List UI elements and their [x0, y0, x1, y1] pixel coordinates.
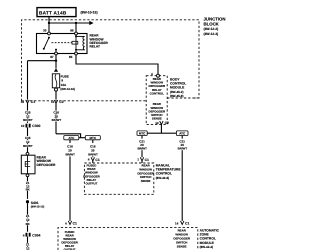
svg-text:BR/WT: BR/WT — [178, 147, 188, 151]
fuse element curve — [55, 74, 57, 87]
svg-text:(8W-15-12): (8W-15-12) — [31, 206, 45, 209]
option tag MTC sense branch — [137, 131, 147, 136]
option tag MTC right branch — [85, 136, 100, 140]
svg-text:(8W-10-15): (8W-10-15) — [81, 11, 98, 15]
wire through C2 down — [55, 103, 57, 133]
svg-text:4: 4 — [65, 221, 67, 225]
relay coil branch node top — [75, 35, 77, 37]
wire C300 to defogger — [27, 128, 29, 153]
MTC dashed box — [84, 163, 153, 194]
wire to relay pin 86 — [75, 23, 77, 32]
svg-text:9: 9 — [61, 79, 63, 83]
wire relay pin 85 to BCM — [76, 55, 158, 74]
svg-text:ATC: ATC — [68, 136, 75, 140]
wire MTC branch to C1 — [92, 155, 94, 158]
wire to relay pin 30 — [48, 23, 50, 32]
svg-text:MTC: MTC — [90, 136, 97, 140]
svg-text:BATT A14B: BATT A14B — [39, 11, 67, 16]
svg-text:14: 14 — [155, 121, 159, 125]
label wire C21 20 BR/WT to MTC sense — [137, 140, 147, 151]
relay coil parallel conductor — [75, 35, 77, 52]
relay switch blade (open) — [44, 38, 49, 49]
connector C2 symbol at junction block — [54, 100, 57, 104]
svg-text:14: 14 — [175, 221, 179, 225]
arrow continuation of B+ feed — [89, 21, 93, 25]
wire ATC branch stub — [69, 140, 71, 143]
wire MTC branch stub — [92, 140, 94, 143]
svg-text:(8W-42-4): (8W-42-4) — [200, 245, 213, 249]
svg-text:CONTROL: CONTROL — [150, 91, 165, 95]
pin 87 terminal — [55, 52, 58, 55]
svg-text:4: 4 — [151, 72, 153, 76]
relay actuator end block — [72, 41, 78, 44]
svg-text:BK/WT: BK/WT — [23, 118, 33, 122]
label wire C15 12 BK/WT upper — [23, 110, 33, 122]
label MTC fused relay output input — [83, 164, 100, 186]
svg-text:1: 1 — [137, 158, 139, 162]
svg-text:BK/WT: BK/WT — [52, 118, 62, 122]
relay K1 rear window defogger relay box — [37, 34, 88, 54]
fuse output terminal circle — [55, 88, 58, 91]
option tag ATC left branch — [64, 136, 79, 140]
junction block dashed outline — [22, 20, 200, 101]
svg-text:(8W-12-3): (8W-12-3) — [204, 32, 219, 36]
svg-text:86: 86 — [70, 29, 74, 33]
svg-text:BR/WT: BR/WT — [88, 152, 98, 156]
connector C1 at AZC right — [181, 221, 184, 225]
wire sense split horizontal right — [161, 132, 176, 134]
svg-text:(8W-12-2): (8W-12-2) — [204, 27, 219, 31]
svg-text:85: 85 — [69, 55, 73, 59]
label wire Z1 12 BK upper — [26, 181, 31, 192]
label BCM switch sense output — [149, 102, 166, 120]
wire B+ distribution horizontal — [49, 22, 90, 24]
svg-text:30: 30 — [43, 29, 47, 33]
option tag ATC sense branch — [176, 131, 188, 136]
wire C304 down to ground — [27, 237, 29, 250]
label BATT A14B box — [37, 8, 76, 17]
svg-text:4: 4 — [23, 233, 25, 237]
svg-text:BLOCK: BLOCK — [204, 21, 220, 26]
rear window defogger grid terminal bottom — [26, 174, 29, 177]
wire defogger ground lead — [27, 177, 29, 199]
fuse F9 cavity box — [52, 74, 59, 88]
rear window defogger element box — [21, 155, 35, 174]
svg-text:BK/WT: BK/WT — [23, 144, 33, 148]
label wire C21 20 BR/WT to AZC sense — [178, 140, 188, 151]
label wire Z1 12 bottom — [26, 243, 30, 250]
stub fixed contact to pin87 — [55, 50, 57, 53]
svg-text:16: 16 — [21, 100, 25, 104]
relay coil branch node bottom — [75, 49, 77, 51]
svg-text:C1: C1 — [73, 221, 77, 225]
connector C1 symbol at junction block — [26, 100, 29, 104]
BCM terminal circle — [157, 74, 160, 77]
AZC dashed box — [58, 228, 198, 250]
relay coil winding — [83, 36, 85, 50]
svg-text:C300: C300 — [32, 124, 40, 128]
fuse feed arrow — [54, 68, 58, 72]
svg-text:MTC: MTC — [139, 131, 146, 135]
wire fused output split corner — [56, 134, 81, 138]
wire pin87 output to left branch — [28, 60, 57, 62]
label wire Z1 12 BK middle — [26, 214, 31, 226]
wire ATC sense down to AZC — [181, 150, 183, 221]
inline connector C300 halves — [26, 124, 31, 128]
label MTC switch sense input — [137, 164, 154, 184]
connector C1 at MTC left — [91, 157, 94, 161]
splice S401 — [26, 200, 29, 203]
relay actuator dashed link — [52, 42, 72, 44]
wire relay pin 87 output down — [55, 55, 57, 61]
svg-text:OUTPUT: OUTPUT — [85, 182, 97, 186]
svg-text:C1: C1 — [145, 158, 149, 162]
relay coil top lead — [76, 35, 85, 37]
wire S401 down — [27, 203, 29, 232]
svg-text:ATC: ATC — [179, 131, 186, 135]
defogger element conductor — [27, 155, 29, 174]
svg-text:FUSE: FUSE — [61, 74, 69, 78]
svg-text:C2: C2 — [59, 100, 63, 104]
relay switch pivot — [48, 37, 50, 39]
pin 85 terminal — [75, 52, 78, 55]
svg-text:SENSE: SENSE — [141, 179, 151, 183]
BCM dashed box — [146, 76, 167, 125]
svg-text:C2: C2 — [165, 121, 169, 125]
svg-text:4: 4 — [88, 158, 90, 162]
wire fuse output down to C2 — [55, 91, 57, 100]
svg-text:(8W-42-8): (8W-42-8) — [156, 176, 169, 180]
wire ATC sense stub — [181, 136, 183, 139]
svg-text:RELAY: RELAY — [90, 45, 101, 49]
label wire C16 20 BR/WT to AZC — [65, 145, 75, 157]
label BCM relay control input — [149, 77, 166, 95]
wire through C1 — [27, 103, 29, 123]
svg-text:(8W-45-8): (8W-45-8) — [170, 94, 183, 98]
wire between option tags — [79, 137, 85, 139]
rear window defogger grid terminal top — [26, 152, 29, 155]
relay coil bottom lead — [76, 49, 85, 51]
label wire C16 20 BR/WT to MTC — [88, 145, 98, 157]
label wire C15 12 BK/WT lower — [23, 136, 33, 148]
pin 30 terminal — [48, 32, 51, 35]
svg-text:BR/WT: BR/WT — [65, 152, 75, 156]
wire pin87 output to fuse — [55, 61, 57, 69]
pin 86 terminal — [75, 32, 78, 35]
svg-text:12: 12 — [26, 246, 30, 250]
svg-text:11: 11 — [51, 100, 55, 104]
svg-text:C1: C1 — [95, 158, 99, 162]
svg-text:87: 87 — [50, 55, 54, 59]
svg-text:S401: S401 — [31, 201, 39, 205]
defogger heating element symbol — [25, 161, 30, 166]
svg-text:SENSE: SENSE — [177, 245, 187, 249]
svg-text:10: 10 — [21, 124, 25, 128]
connector C1 at MTC right — [140, 157, 143, 161]
node at relay pin 30 drop — [48, 22, 50, 24]
svg-text:C304: C304 — [32, 233, 40, 237]
label AZC fused relay output input — [61, 230, 78, 250]
relay fixed contact dot to pin 87 — [55, 49, 57, 51]
wire sense split horizontal left — [147, 132, 161, 134]
svg-text:C1: C1 — [31, 100, 35, 104]
white masks behind inline wire labels — [23, 111, 61, 250]
node at relay pin 86 drop — [75, 22, 77, 24]
wire from BATT feed down into junction block — [48, 17, 50, 23]
node pin87 output split — [55, 60, 57, 62]
wire MTC C1 into module — [92, 161, 94, 163]
svg-text:(8W-12-16): (8W-12-16) — [60, 87, 75, 91]
wire MTC sense C1 into module — [141, 161, 143, 163]
wire MTC sense to C1 — [141, 150, 143, 157]
wire ATC branch down to AZC — [69, 156, 71, 221]
inline connector C304 halves — [26, 233, 31, 237]
label wire C16 20 BK/WT fuse output — [52, 110, 62, 122]
relay switch open contact dot — [43, 48, 45, 50]
connector C2 at BCM bottom — [160, 121, 163, 125]
label AZC switch sense input — [173, 229, 190, 249]
wire BCM switch sense output — [160, 125, 162, 134]
svg-text:DEFOGGER: DEFOGGER — [37, 163, 56, 167]
svg-text:BR/WT: BR/WT — [137, 147, 147, 151]
connector C1 at AZC left — [68, 221, 71, 225]
wire MTC sense stub — [141, 136, 143, 139]
svg-text:C1: C1 — [185, 221, 189, 225]
wire left branch down to C1 — [27, 61, 29, 100]
